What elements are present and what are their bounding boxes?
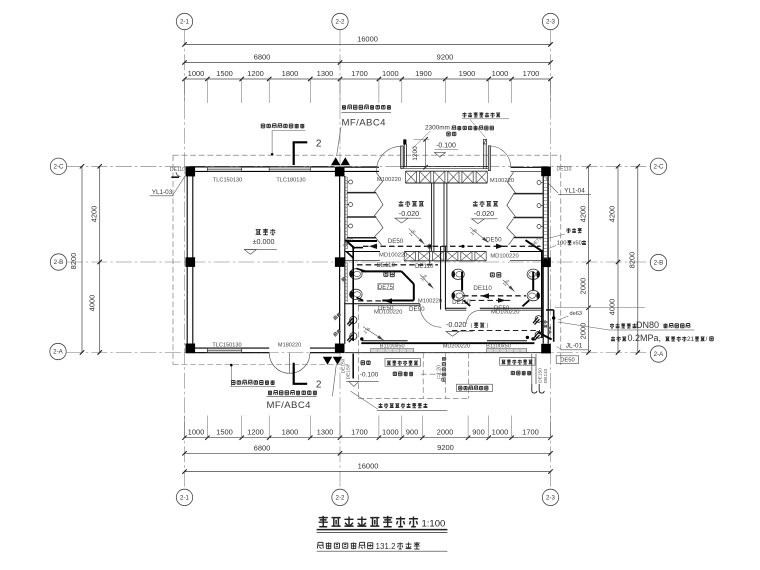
svg-text:2-A: 2-A — [654, 351, 665, 358]
svg-text:131.2: 131.2 — [376, 542, 397, 551]
svg-text:21: 21 — [687, 336, 695, 343]
svg-text:4000: 4000 — [608, 299, 617, 316]
svg-text:2-B: 2-B — [654, 260, 664, 267]
svg-text:1000: 1000 — [382, 427, 399, 436]
svg-text:1500: 1500 — [216, 427, 233, 436]
svg-text:16000: 16000 — [357, 35, 378, 44]
svg-text:DE110: DE110 — [415, 263, 434, 270]
svg-text:1800: 1800 — [282, 427, 299, 436]
svg-text:2-3: 2-3 — [546, 495, 556, 502]
svg-text:2-1: 2-1 — [180, 19, 190, 26]
svg-text:DE90: DE90 — [409, 306, 425, 313]
svg-text:1700: 1700 — [522, 427, 539, 436]
svg-text:JL-01: JL-01 — [566, 343, 583, 350]
svg-text:2-2: 2-2 — [336, 495, 346, 502]
svg-text:TLC150130: TLC150130 — [212, 343, 241, 349]
svg-text:1700: 1700 — [523, 69, 540, 78]
svg-text:8200: 8200 — [69, 253, 78, 270]
svg-text:900: 900 — [472, 427, 485, 436]
svg-text:DE110: DE110 — [543, 369, 549, 384]
svg-text:6800: 6800 — [254, 443, 271, 452]
svg-text:TLC150130: TLC150130 — [213, 177, 242, 183]
svg-text:B1100x50: B1100x50 — [486, 344, 511, 350]
svg-text:B1100x50: B1100x50 — [380, 344, 405, 350]
svg-text:DE50: DE50 — [388, 238, 404, 245]
svg-text:-0.020: -0.020 — [399, 209, 419, 218]
svg-text:DE110: DE110 — [452, 299, 471, 306]
svg-text:1200: 1200 — [247, 427, 264, 436]
svg-text:2000: 2000 — [579, 323, 588, 340]
svg-text:DE50: DE50 — [494, 305, 510, 312]
svg-text:2000: 2000 — [579, 278, 588, 295]
svg-text:1900: 1900 — [459, 69, 476, 78]
svg-text:MD200220: MD200220 — [443, 344, 470, 350]
svg-text:x50: x50 — [573, 240, 582, 246]
svg-text:DE150: DE150 — [537, 368, 543, 383]
svg-text:1000: 1000 — [492, 427, 509, 436]
svg-text:2: 2 — [316, 380, 322, 391]
svg-text:DE50: DE50 — [486, 237, 502, 244]
svg-text:1:100: 1:100 — [422, 519, 446, 530]
svg-text:-0.020: -0.020 — [446, 320, 466, 329]
svg-text:-0.100: -0.100 — [436, 143, 456, 150]
svg-text:YL1-04: YL1-04 — [564, 187, 585, 194]
svg-text:M100220: M100220 — [490, 178, 514, 184]
svg-text:DE110: DE110 — [473, 285, 492, 292]
svg-text:DE110: DE110 — [170, 167, 185, 173]
svg-text:900: 900 — [406, 427, 419, 436]
svg-text:4200: 4200 — [579, 206, 588, 223]
svg-text:4200: 4200 — [90, 206, 99, 223]
svg-text:1000: 1000 — [188, 427, 205, 436]
svg-text:8200: 8200 — [628, 252, 637, 269]
svg-text:2300mm: 2300mm — [425, 125, 450, 132]
svg-text:1000: 1000 — [492, 69, 509, 78]
svg-text:YL1-03: YL1-03 — [152, 189, 173, 196]
svg-text:2-B: 2-B — [54, 259, 64, 266]
svg-text:): ) — [487, 323, 489, 329]
svg-text:-0.100: -0.100 — [360, 372, 379, 379]
svg-text:1800: 1800 — [282, 69, 299, 78]
svg-text:2-A: 2-A — [53, 349, 64, 356]
svg-text:1700: 1700 — [351, 427, 368, 436]
svg-text:DE110: DE110 — [376, 262, 395, 269]
svg-text:6800: 6800 — [254, 52, 271, 61]
svg-text:2-C: 2-C — [54, 164, 65, 171]
svg-text:100: 100 — [557, 240, 567, 246]
svg-text:DE110: DE110 — [557, 166, 572, 172]
svg-text:M100220: M100220 — [377, 177, 401, 183]
svg-text:M180220: M180220 — [278, 343, 301, 349]
svg-text:DN80: DN80 — [636, 320, 659, 330]
svg-text:4200: 4200 — [608, 206, 617, 223]
svg-text:4000: 4000 — [88, 295, 97, 312]
svg-text:MF/ABC4: MF/ABC4 — [342, 118, 387, 129]
svg-text:1000: 1000 — [382, 69, 399, 78]
svg-text:1200: 1200 — [247, 69, 264, 78]
svg-text:MD100220: MD100220 — [490, 254, 518, 260]
svg-text:(: ( — [471, 323, 473, 329]
svg-text:2-3: 2-3 — [546, 19, 556, 26]
svg-text:i=1:20: i=1:20 — [437, 365, 443, 379]
svg-text:/: / — [706, 336, 708, 343]
svg-text:2: 2 — [316, 138, 322, 149]
svg-text:TLC180130: TLC180130 — [276, 177, 305, 183]
svg-text:2-C: 2-C — [654, 164, 665, 171]
svg-text:1700: 1700 — [351, 69, 368, 78]
svg-text:0.2MPa,: 0.2MPa, — [628, 333, 662, 343]
svg-text:M100220: M100220 — [418, 299, 442, 305]
svg-text:1300: 1300 — [317, 427, 334, 436]
svg-text:-0.020: -0.020 — [474, 209, 494, 218]
svg-text:DE50: DE50 — [560, 358, 575, 364]
svg-text:±0.000: ±0.000 — [253, 237, 275, 246]
svg-text:1500: 1500 — [216, 69, 233, 78]
svg-text:2-2: 2-2 — [336, 19, 346, 26]
svg-text:de63: de63 — [570, 311, 582, 317]
svg-text:9200: 9200 — [437, 443, 454, 452]
svg-text:1000: 1000 — [188, 69, 205, 78]
svg-text:2000: 2000 — [437, 427, 454, 436]
svg-text:2-1: 2-1 — [180, 495, 190, 502]
svg-text:DE150: DE150 — [346, 364, 352, 379]
svg-text:16000: 16000 — [358, 461, 379, 470]
svg-text:1300: 1300 — [317, 69, 334, 78]
svg-text:MD100220: MD100220 — [379, 253, 407, 259]
svg-text:1900: 1900 — [415, 69, 432, 78]
svg-text:9200: 9200 — [437, 52, 454, 61]
svg-text:MF/ABC4: MF/ABC4 — [267, 400, 312, 411]
svg-text:DE50: DE50 — [378, 305, 394, 312]
